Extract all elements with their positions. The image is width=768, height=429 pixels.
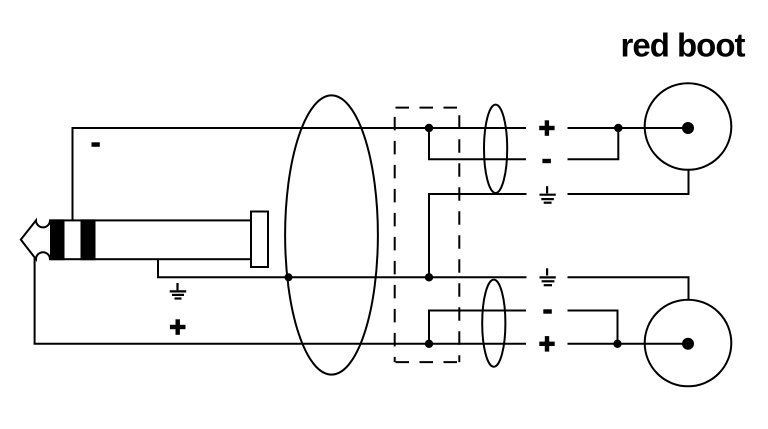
wire: plus lead into bottom RCA center pin <box>568 343 689 345</box>
wire: minus lead to top RCA (drops to plus junction) <box>568 128 619 159</box>
ground symbol, bottom channel lead <box>540 268 556 285</box>
TRS jack plug J1: collar at cable end <box>251 212 268 268</box>
RCA connector top: center pin <box>682 122 694 134</box>
junction on shield ellipse <box>285 273 293 281</box>
TRS jack plug J1: barrel (sleeve) <box>50 220 251 259</box>
wire: sleeve/shield from barrel down to center bus <box>158 258 527 277</box>
wire: tip contact down left side and across bottom (positive, bottom channel) <box>35 256 526 344</box>
junction: top wire in cable box <box>425 124 433 132</box>
wire: top-channel ground spur from shield bus <box>429 194 527 277</box>
TRS jack plug J1: insulator band 2 <box>81 219 96 260</box>
junction: bottom RCA plus/minus tie <box>613 340 621 348</box>
polarity label minus, top-left near ring wire <box>92 142 100 147</box>
dashed cable boundary box <box>395 108 460 363</box>
RCA connector top: shell <box>645 83 732 170</box>
wire: bottom-channel minus spur from bottom junction <box>429 311 526 344</box>
RCA connector bottom: shell <box>645 300 732 387</box>
polarity label plus, bottom RCA <box>539 336 554 352</box>
polarity label minus, top RCA <box>542 159 551 163</box>
wire: minus lead to bottom RCA (drops to plus junction) <box>568 311 618 344</box>
wire: ground lead to top RCA shell <box>568 170 689 194</box>
twisted pair ellipse, top channel <box>484 105 507 193</box>
twisted pair ellipse, bottom channel <box>482 280 505 367</box>
TRS jack plug J1: insulator band 1 <box>50 219 65 260</box>
ground symbol, top channel lead <box>540 186 556 203</box>
RCA connector bottom: center pin <box>682 338 694 350</box>
wire: branch from top junction down to minus line (top channel) <box>429 128 526 159</box>
cable shield ellipse <box>285 95 378 374</box>
junction: bottom wire in cable box <box>425 340 433 348</box>
junction: shield bus in cable box <box>425 273 433 281</box>
TRS jack plug J1: tip with notches <box>21 220 50 259</box>
junction: top RCA plus/minus tie <box>614 124 622 132</box>
svg-text:red boot: red boot <box>621 27 746 64</box>
wire: ring contact up and across top (negative, top channel) <box>73 128 527 221</box>
polarity label plus, below jack (tip wire) <box>170 319 186 335</box>
polarity label minus, bottom RCA <box>543 309 552 313</box>
polarity label plus, top RCA <box>539 120 554 136</box>
wire: plus lead into top RCA center pin <box>568 127 689 129</box>
ground symbol under jack sleeve <box>170 283 187 299</box>
wire: ground lead to bottom RCA shell <box>568 277 689 300</box>
